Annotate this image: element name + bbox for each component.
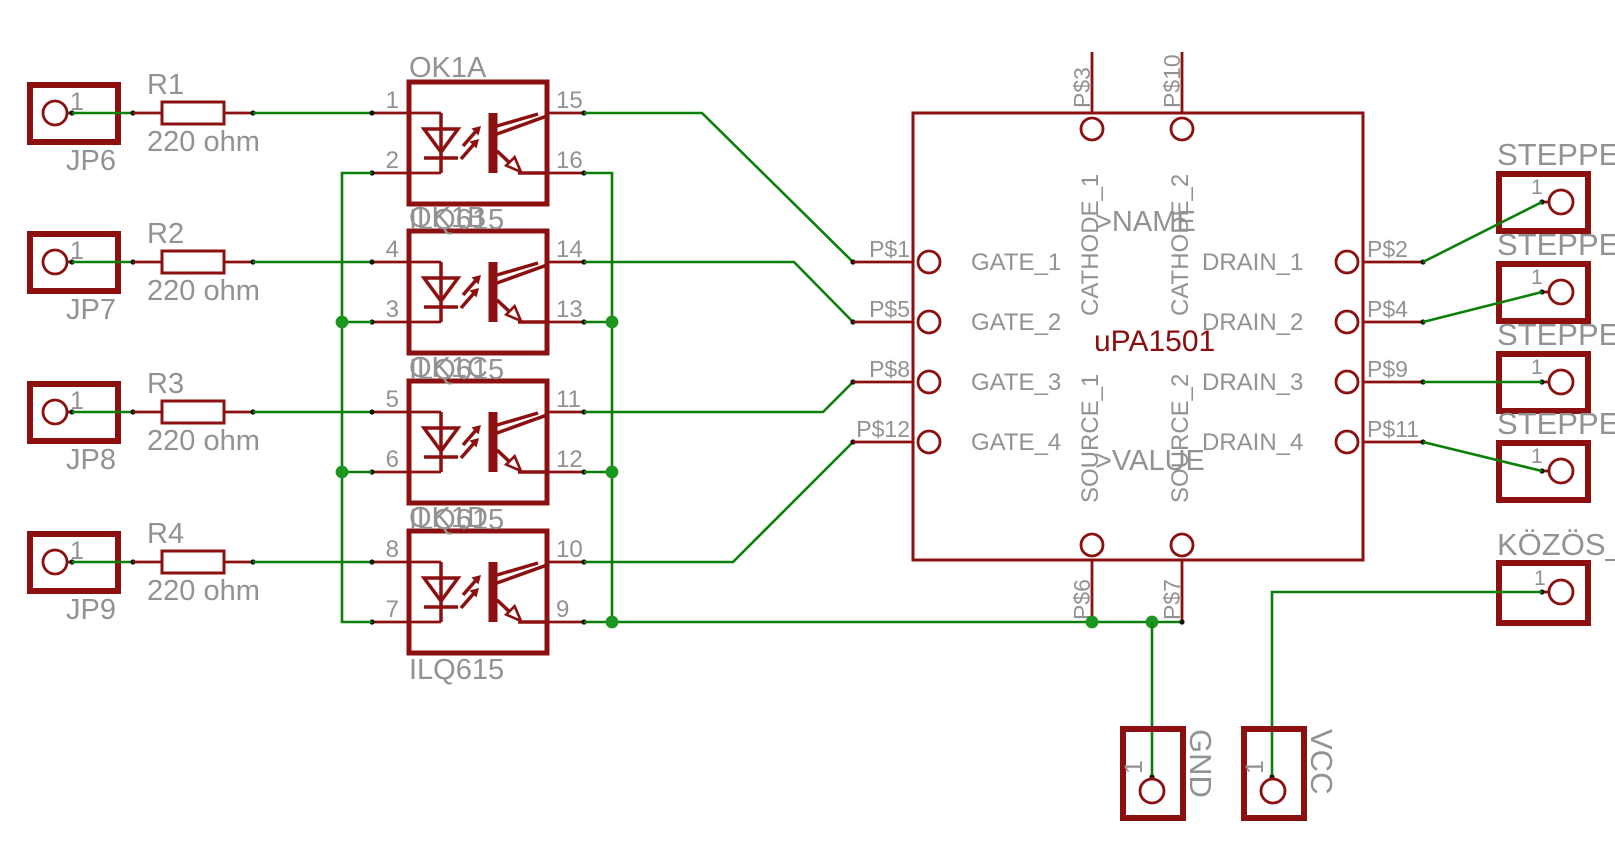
svg-text:220 ohm: 220 ohm [147, 425, 260, 457]
phototransistor of OK1A [489, 113, 548, 173]
svg-text:DRAIN_1: DRAIN_1 [1202, 249, 1303, 276]
wire R3 to optocoupler [253, 411, 372, 414]
junction at bus/pin13 [606, 316, 619, 329]
junction GND tap at bottom net [1146, 616, 1159, 629]
svg-text:220 ohm: 220 ohm [147, 126, 260, 158]
optocoupler OK1D body [369, 531, 586, 653]
wire R1 to optocoupler [253, 112, 372, 115]
svg-text:P$3: P$3 [1069, 67, 1095, 108]
svg-text:DRAIN_2: DRAIN_2 [1202, 309, 1303, 336]
svg-text:SOURCE_2: SOURCE_2 [1167, 374, 1194, 503]
resistor R4 [133, 551, 256, 573]
svg-text:P$5: P$5 [869, 296, 910, 322]
svg-text:10: 10 [556, 536, 583, 563]
svg-text:VCC: VCC [1304, 729, 1339, 794]
wire bus right vertical (pins 16,13,12,9) [584, 173, 612, 622]
svg-text:P$8: P$8 [869, 356, 910, 382]
wire R2 to optocoupler [253, 261, 372, 264]
wire pin12 to bus [584, 471, 612, 474]
wire pin3 to bus [342, 321, 372, 324]
svg-text:>VALUE: >VALUE [1095, 445, 1205, 477]
resistor R2 [133, 251, 256, 273]
svg-text:P$7: P$7 [1159, 579, 1185, 620]
pin tip dot [850, 379, 855, 384]
svg-text:1: 1 [386, 87, 399, 114]
wire JP8 to R3 [72, 409, 136, 414]
svg-text:OK1A: OK1A [409, 52, 487, 84]
svg-text:14: 14 [556, 236, 583, 263]
svg-text:GND: GND [1183, 729, 1218, 798]
optocoupler OK1C body [369, 381, 586, 503]
pin tip dot P$7 [1179, 619, 1184, 624]
wire JP6 to R1 [72, 110, 136, 115]
wire pin11 to P$8 (GATE_3) [584, 382, 853, 412]
wire JP9 to R4 [72, 559, 136, 564]
light arrows of OK1B [461, 275, 481, 308]
connector VCC [1244, 729, 1304, 818]
svg-text:220 ohm: 220 ohm [147, 575, 260, 607]
wire to STEPPER_3 [1423, 381, 1542, 384]
wire pin10 to P$12 (GATE_4) [584, 442, 853, 562]
svg-text:9: 9 [556, 596, 569, 623]
phototransistor of OK1C [489, 412, 548, 472]
svg-text:GATE_4: GATE_4 [971, 429, 1061, 456]
svg-text:CATHODE_1: CATHODE_1 [1077, 174, 1104, 316]
IC U1 uPA1501 body [913, 113, 1363, 560]
svg-text:8: 8 [386, 536, 399, 563]
connector STEPPER_2 [1499, 264, 1588, 321]
LED of OK1A [424, 113, 458, 173]
resistor R3 [133, 401, 256, 423]
junction at bus/pin6 [336, 466, 349, 479]
svg-text:OK1B: OK1B [409, 202, 486, 234]
wire to STEPPER_2 [1423, 292, 1542, 322]
wire R4 to optocoupler [253, 561, 372, 564]
wire pin9 / bottom net to P$7 [584, 621, 1182, 624]
optocoupler OK1A body [369, 82, 586, 204]
svg-text:JP7: JP7 [66, 294, 116, 326]
svg-text:R4: R4 [147, 518, 184, 550]
svg-text:11: 11 [556, 386, 581, 413]
svg-text:STEPPER_2: STEPPER_2 [1497, 227, 1615, 262]
svg-text:OK1D: OK1D [409, 502, 488, 534]
svg-text:CATHODE_2: CATHODE_2 [1167, 174, 1194, 316]
svg-text:16: 16 [556, 147, 583, 174]
svg-text:R1: R1 [147, 69, 184, 101]
svg-text:P$2: P$2 [1367, 236, 1408, 262]
phototransistor of OK1B [489, 262, 548, 322]
svg-text:JP8: JP8 [66, 444, 116, 476]
IC pin P$4 (DRAIN_2) right [1336, 311, 1426, 333]
svg-text:P$9: P$9 [1367, 356, 1408, 382]
connector JP7 [30, 234, 118, 291]
svg-text:1: 1 [1531, 266, 1543, 289]
junction at bus/pin12 [606, 466, 619, 479]
junction at bus/pin3 [336, 316, 349, 329]
svg-text:GATE_2: GATE_2 [971, 309, 1061, 336]
wire VCC to KOZOS [1272, 592, 1542, 777]
connector GND [1123, 729, 1183, 818]
IC pin P$9 (DRAIN_3) right [1336, 371, 1426, 393]
light arrows of OK1A [461, 126, 481, 159]
svg-text:OK1C: OK1C [409, 352, 488, 384]
connector JP6 [30, 85, 118, 142]
svg-text:GATE_1: GATE_1 [971, 249, 1061, 276]
connector STEPPER_4 [1499, 443, 1588, 500]
resistor R1 [133, 102, 256, 124]
svg-text:STEPPER_3: STEPPER_3 [1497, 317, 1615, 352]
light arrows of OK1C [461, 425, 481, 458]
svg-text:1: 1 [1531, 356, 1543, 379]
svg-text:P$12: P$12 [856, 416, 910, 442]
IC pin P$8 (GATE_3) left [853, 371, 940, 393]
svg-text:1: 1 [1241, 760, 1269, 774]
LED of OK1B [424, 262, 458, 322]
wire pin15 to P$1 (GATE_1) [584, 113, 853, 262]
svg-text:R2: R2 [147, 218, 184, 250]
wire pin13 to bus [584, 321, 612, 324]
pin tip dot [850, 439, 855, 444]
svg-text:SOURCE_1: SOURCE_1 [1077, 374, 1104, 503]
connector KOZOS [1499, 563, 1588, 623]
svg-text:1: 1 [1531, 176, 1543, 199]
IC pin P$5 (GATE_2) left [853, 311, 940, 333]
pin tip dot [850, 259, 855, 264]
svg-text:STEPPER_1: STEPPER_1 [1497, 137, 1615, 172]
wire pin6 to bus [342, 471, 372, 474]
svg-text:P$11: P$11 [1367, 416, 1419, 442]
IC pin P$11 (DRAIN_4) right [1336, 431, 1426, 453]
svg-text:220 ohm: 220 ohm [147, 275, 260, 307]
connector STEPPER_3 [1499, 354, 1588, 411]
svg-text:DRAIN_4: DRAIN_4 [1202, 429, 1303, 456]
svg-text:P$6: P$6 [1069, 579, 1095, 620]
svg-text:1: 1 [1120, 760, 1148, 774]
svg-text:3: 3 [386, 296, 399, 323]
LED of OK1C [424, 412, 458, 472]
svg-text:JP6: JP6 [66, 145, 116, 177]
junction at bus/pin9 [606, 616, 619, 629]
svg-text:P$10: P$10 [1159, 54, 1185, 108]
svg-text:DRAIN_3: DRAIN_3 [1202, 369, 1303, 396]
svg-text:R3: R3 [147, 368, 184, 400]
svg-text:13: 13 [556, 296, 583, 323]
IC pin P$3 (CATHODE_1) top [1081, 52, 1103, 140]
connector JP9 [30, 534, 118, 591]
svg-text:>NAME: >NAME [1095, 206, 1196, 238]
wire pin14 to P$5 (GATE_2) [584, 262, 853, 322]
wire to STEPPER_1 [1423, 202, 1542, 262]
svg-text:KÖZÖS_1: KÖZÖS_1 [1497, 527, 1615, 562]
connector JP8 [30, 384, 118, 441]
svg-text:ILQ615: ILQ615 [409, 654, 504, 686]
svg-text:1: 1 [1534, 567, 1546, 590]
svg-text:P$4: P$4 [1367, 296, 1408, 322]
connector STEPPER_1 [1499, 174, 1588, 231]
LED of OK1D [424, 562, 458, 622]
IC pin P$10 (CATHODE_2) top [1171, 52, 1193, 140]
IC pin P$12 (GATE_4) left [853, 431, 940, 453]
IC pin P$2 (DRAIN_1) right [1336, 251, 1426, 273]
svg-text:1: 1 [1531, 445, 1543, 468]
IC pin P$1 (GATE_1) left [853, 251, 940, 273]
svg-text:7: 7 [386, 596, 399, 623]
IC pin P$7 (SOURCE_2) bottom [1171, 534, 1193, 622]
wire bottom net to GND [1151, 622, 1154, 777]
svg-text:5: 5 [386, 386, 399, 413]
wire JP7 to R2 [72, 259, 136, 264]
optocoupler OK1B body [369, 231, 586, 353]
svg-text:4: 4 [386, 236, 399, 263]
pin tip dot [850, 319, 855, 324]
phototransistor of OK1D [489, 562, 548, 622]
wire bus left vertical (pins 2,3,6,7) [342, 173, 372, 622]
svg-text:JP9: JP9 [66, 594, 116, 626]
svg-text:GATE_3: GATE_3 [971, 369, 1061, 396]
wire to STEPPER_4 [1423, 442, 1542, 471]
svg-text:uPA1501: uPA1501 [1094, 325, 1215, 358]
svg-text:12: 12 [556, 446, 583, 473]
svg-text:STEPPER_4: STEPPER_4 [1497, 406, 1615, 441]
junction P$6 at bottom net [1086, 616, 1099, 629]
svg-text:15: 15 [556, 87, 583, 114]
svg-text:6: 6 [386, 446, 399, 473]
light arrows of OK1D [461, 575, 481, 608]
svg-text:P$1: P$1 [869, 236, 910, 262]
IC pin P$6 (SOURCE_1) bottom [1081, 534, 1103, 622]
svg-text:2: 2 [386, 147, 399, 174]
